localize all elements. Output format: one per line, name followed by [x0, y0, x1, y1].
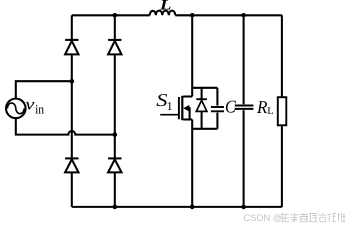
svg-text:1: 1: [167, 99, 173, 113]
svg-text:L: L: [267, 106, 273, 117]
svg-text:CSDN: CSDN: [243, 213, 270, 224]
svg-text:L: L: [159, 0, 172, 14]
svg-text:v: v: [25, 94, 35, 113]
svg-text:C: C: [225, 96, 237, 116]
svg-text:in: in: [35, 102, 44, 117]
svg-text:R: R: [256, 97, 267, 117]
svg-text:@: @: [273, 213, 282, 223]
